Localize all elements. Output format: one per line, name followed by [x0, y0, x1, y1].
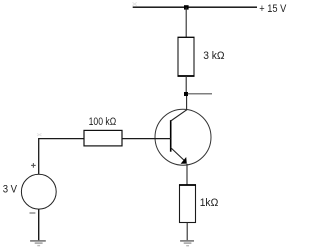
- resistor R3 body: [179, 185, 196, 223]
- node: collector junction: [184, 92, 188, 96]
- wire: V1 bottom to ground: [38, 209, 40, 240]
- wire: Q1 emitter to R3 top: [186, 164, 188, 185]
- svg-text:3 V: 3 V: [3, 183, 18, 195]
- polarity mark: plus: [31, 163, 36, 168]
- wire: base (left segment from V1 corner to R2): [39, 139, 84, 175]
- polarity mark: minus: [30, 212, 36, 214]
- ground (right): [180, 241, 194, 246]
- node marker x (base corner, faint): [37, 133, 42, 136]
- node: rail junction: [184, 5, 189, 9]
- svg-text:1kΩ: 1kΩ: [200, 197, 219, 209]
- ground (left): [30, 241, 46, 246]
- wire: R1 bottom to collector junction: [185, 76, 187, 92]
- svg-text:3 kΩ: 3 kΩ: [203, 50, 224, 62]
- wire: junction down to Q1 collector: [186, 96, 188, 110]
- wire: rail to R1 top: [185, 7, 187, 37]
- svg-text:100 kΩ: 100 kΩ: [89, 116, 117, 128]
- wire: R3 bottom to ground: [186, 223, 188, 241]
- voltage source V1: [21, 174, 56, 209]
- resistor R1 body: [178, 37, 195, 76]
- node marker x (rail end, faint): [133, 2, 137, 5]
- wire: base (R2 to Q1 base bar): [122, 138, 171, 140]
- wire: +15V supply rail: [133, 6, 257, 8]
- resistor R2 body: [84, 130, 122, 146]
- wire: collector stub to the right: [188, 93, 212, 95]
- transistor Q1: [155, 109, 211, 165]
- svg-text:+ 15 V: + 15 V: [259, 3, 287, 15]
